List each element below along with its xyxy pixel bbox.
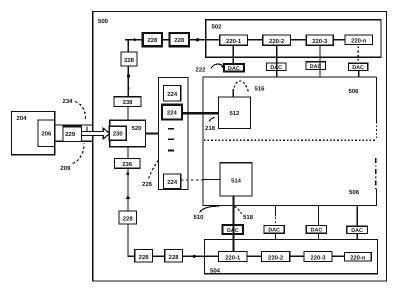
label 234 with dashed leader arc	[63, 98, 86, 119]
cable channel bottom line	[55, 140, 93, 142]
svg-text:220-3: 220-3	[312, 38, 328, 45]
label 218 with tick	[205, 118, 216, 132]
svg-text:228: 228	[174, 37, 185, 44]
block 236	[115, 159, 141, 169]
element 220-1 bottom	[219, 251, 247, 261]
DAC bottom 4	[347, 226, 368, 233]
DAC bottom 2	[264, 225, 284, 233]
inner box 206	[38, 120, 55, 146]
element 220-2 bottom	[262, 251, 290, 261]
svg-text:506: 506	[349, 88, 360, 95]
DAC top 3	[306, 62, 326, 70]
wire DAC4b to 504	[356, 234, 358, 240]
block 230	[109, 126, 126, 140]
wire 220-1 to DAC	[232, 45, 234, 64]
beamformer box 506/508 outline	[203, 77, 377, 206]
svg-text:520: 520	[132, 125, 143, 132]
wire 228 to 238 with junction ticks	[127, 66, 130, 97]
stray mark near channel	[86, 127, 88, 132]
wire 508 to DAC2 bottom partly dotted	[274, 206, 276, 226]
DAC top 2	[266, 63, 286, 71]
wires in 504	[205, 255, 345, 257]
wire DAC3b to 504	[318, 233, 320, 239]
svg-text:226: 226	[142, 181, 153, 188]
element 220-n	[345, 35, 373, 44]
dotted divider line	[204, 139, 377, 141]
element 220-1	[220, 35, 248, 45]
wire 220-3 to DAC	[319, 45, 321, 77]
svg-text:220-1: 220-1	[226, 38, 242, 45]
outer system box 500	[93, 11, 387, 281]
block 238	[114, 97, 141, 107]
svg-text:228: 228	[124, 57, 135, 64]
wire 228 down and right	[128, 224, 135, 256]
svg-text:220-2: 220-2	[269, 38, 285, 45]
svg-text:502: 502	[212, 23, 223, 30]
wire 228 up and right to 502	[125, 38, 206, 52]
svg-text:512: 512	[229, 110, 240, 117]
svg-text:228: 228	[123, 215, 134, 222]
svg-text:228: 228	[139, 254, 150, 261]
svg-text:224: 224	[167, 179, 178, 186]
open block arrow into 230	[82, 128, 110, 139]
wire 220-2 to DAC	[276, 45, 278, 77]
DAC top 1 (bold)	[224, 64, 244, 72]
bold wire 514 to DAC	[232, 196, 234, 251]
svg-text:DAC: DAC	[310, 64, 322, 70]
element 220-3 bottom	[304, 251, 332, 261]
svg-text:222: 222	[196, 66, 207, 73]
svg-text:220-2: 220-2	[268, 254, 284, 261]
svg-text:220-n: 220-n	[351, 38, 367, 45]
label 516 with dashed leader	[234, 81, 265, 92]
label 518 with dashed leader	[235, 207, 254, 221]
svg-text:204: 204	[17, 115, 28, 122]
svg-text:500: 500	[98, 18, 109, 25]
wire 520 to 236	[127, 147, 129, 159]
svg-text:DAC: DAC	[227, 228, 239, 234]
svg-text:508: 508	[349, 189, 360, 196]
antenna array box 504	[205, 240, 378, 274]
label 510 with leader	[194, 206, 220, 221]
svg-text:228: 228	[147, 37, 158, 44]
label 226 with dashed leader	[142, 161, 158, 189]
DAC bottom 1 (bold)	[223, 225, 243, 234]
block 224 bold	[162, 105, 182, 120]
svg-text:518: 518	[243, 214, 254, 221]
svg-text:220-1: 220-1	[225, 254, 241, 261]
svg-text:DAC: DAC	[228, 66, 240, 72]
cable channel top line	[55, 124, 93, 126]
amplifier 228 bottom first	[135, 250, 153, 262]
wire DAC2b to 504	[274, 233, 276, 239]
amplifier 228 (bold, second)	[170, 33, 190, 46]
svg-text:220-n: 220-n	[350, 255, 366, 262]
svg-text:206: 206	[41, 130, 52, 137]
wires in 502	[206, 39, 345, 41]
svg-text:218: 218	[205, 125, 216, 132]
wire above 512	[232, 89, 234, 97]
svg-text:DAC: DAC	[311, 228, 323, 234]
transceiver group box 520	[110, 120, 146, 147]
device box 204	[12, 112, 55, 155]
svg-text:DAC: DAC	[352, 65, 364, 71]
bold wire 520 to 226 bank	[146, 132, 159, 134]
connector box 229	[63, 126, 82, 142]
svg-text:DAC: DAC	[351, 228, 363, 234]
svg-text:234: 234	[63, 98, 74, 105]
svg-text:510: 510	[194, 214, 205, 221]
wire 238 to 520	[127, 107, 129, 121]
svg-text:516: 516	[255, 85, 266, 92]
svg-text:236: 236	[122, 161, 133, 168]
A/D block 512	[219, 97, 251, 129]
svg-text:DAC: DAC	[270, 65, 282, 71]
element 220-3	[306, 35, 333, 45]
phase shifter bank box 226	[159, 78, 189, 190]
wire to 504 with junction dot	[183, 255, 205, 258]
wire between amplifiers	[153, 255, 165, 257]
DAC top 4	[348, 63, 367, 70]
amplifier 228 bottom-left vertical	[119, 211, 136, 224]
antenna array box 502	[206, 20, 381, 57]
svg-text:228: 228	[169, 254, 180, 261]
ellipsis dashes	[168, 128, 174, 152]
svg-text:504: 504	[210, 267, 221, 274]
junction node dot	[196, 38, 199, 41]
element 220-n bottom	[344, 252, 371, 261]
dashed wire 224 to 514	[181, 179, 220, 181]
bold wire 218: 224 to 512	[182, 112, 219, 114]
dotted wire 220-n to DAC	[357, 47, 359, 63]
svg-text:224: 224	[167, 110, 178, 117]
block 224 bottom	[164, 174, 181, 189]
DAC bottom 3	[306, 225, 326, 233]
wire 236 down to 228 with ticks	[126, 168, 131, 211]
wire DAC4 to 506	[358, 70, 360, 77]
amplifier 228 (bold, first)	[143, 33, 162, 46]
wire 508 to DAC3 bottom	[318, 206, 320, 226]
svg-text:220-3: 220-3	[310, 254, 326, 261]
svg-text:209: 209	[60, 165, 71, 172]
amplifier 228 top-left	[121, 52, 137, 66]
svg-text:DAC: DAC	[268, 228, 280, 234]
svg-text:230: 230	[113, 131, 124, 138]
label 222 with leader	[196, 64, 224, 73]
label 209 with dashed leader arc	[60, 144, 84, 173]
amplifier 228 bottom second	[165, 250, 183, 262]
svg-text:229: 229	[65, 131, 76, 138]
D/A block 514	[220, 163, 252, 196]
element 220-2	[263, 35, 291, 45]
wire 508 to DAC4 bottom	[356, 206, 358, 227]
svg-text:238: 238	[123, 99, 134, 106]
svg-text:224: 224	[167, 91, 178, 98]
block 224 top	[164, 86, 181, 101]
svg-text:514: 514	[231, 177, 242, 184]
